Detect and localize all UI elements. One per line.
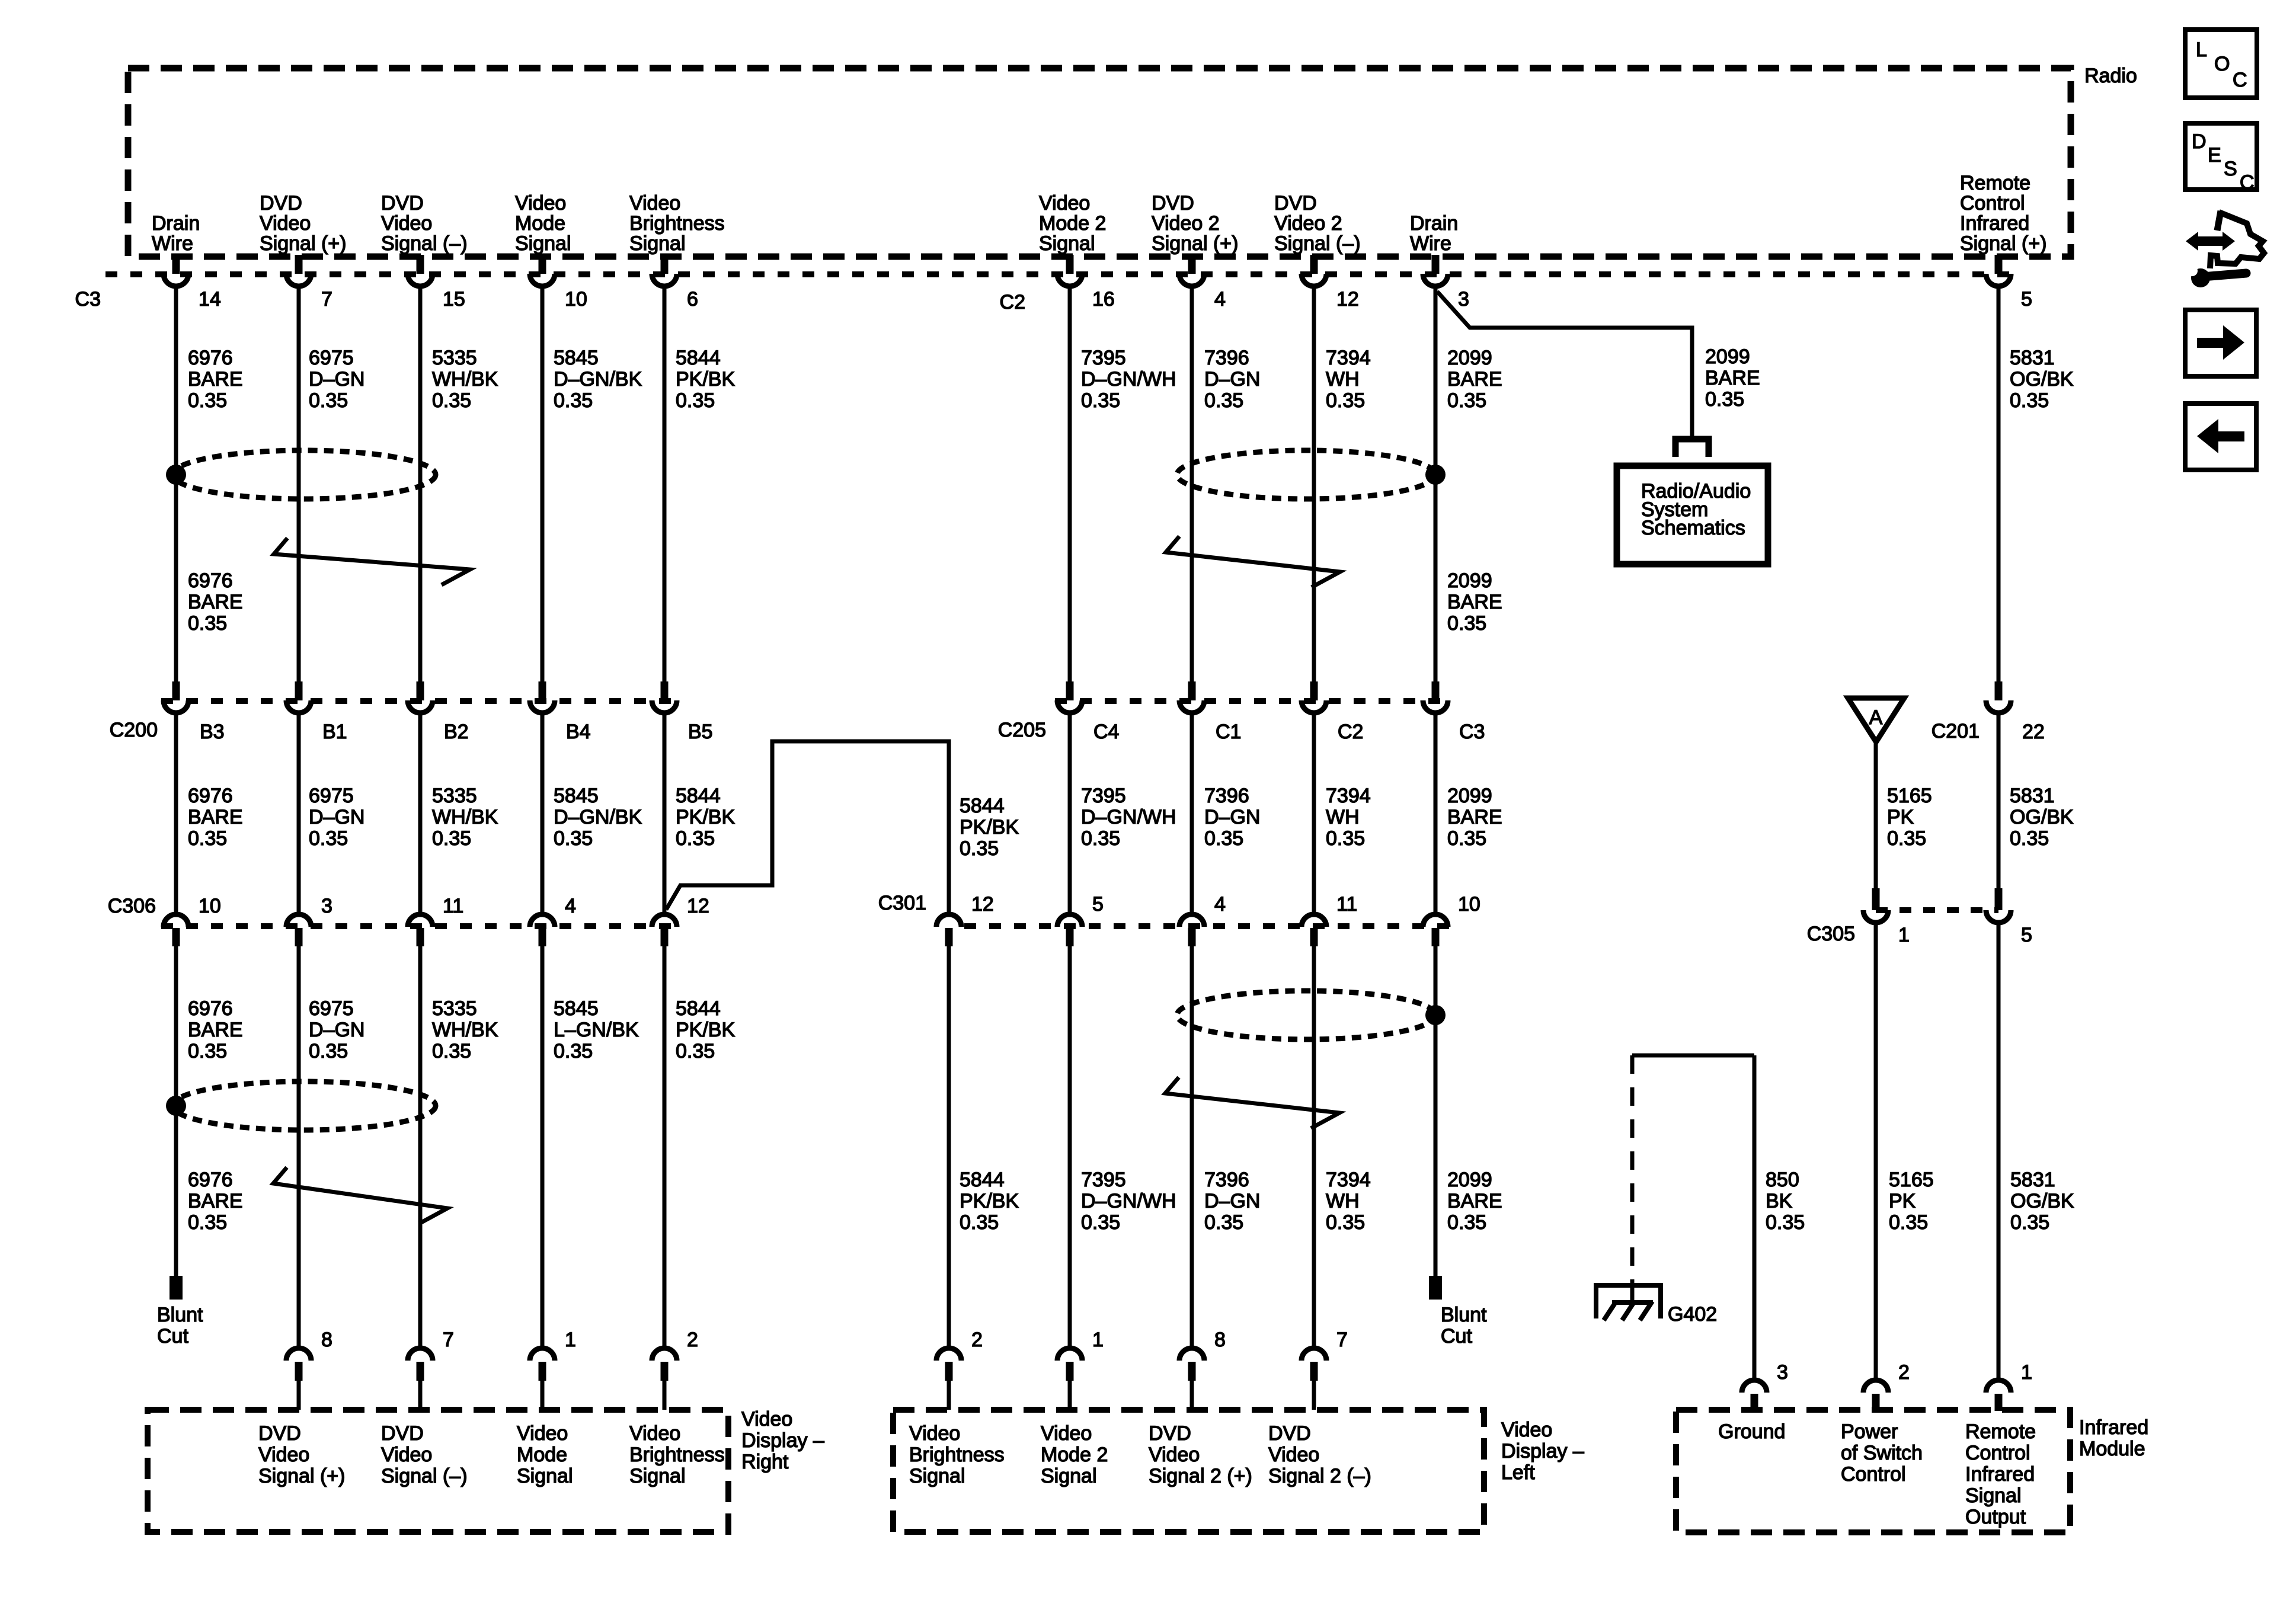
connector terminal 11 at C306 row [408, 895, 463, 946]
connector terminal 1 at C305 row [1863, 888, 1910, 946]
svg-text:Signal 2 (+): Signal 2 (+) [1149, 1465, 1252, 1487]
icon button LOC [2185, 30, 2257, 98]
connector C301 label [878, 892, 926, 914]
svg-text:6975: 6975 [309, 347, 354, 369]
svg-text:Left: Left [1501, 1461, 1535, 1484]
svg-text:BARE: BARE [188, 1019, 243, 1041]
label wire 5831 OG/BK 0.35 (band 5) [2010, 1169, 2074, 1234]
svg-text:0.35: 0.35 [1081, 389, 1120, 412]
svg-text:0.35: 0.35 [1887, 827, 1926, 850]
svg-text:WH/BK: WH/BK [432, 806, 498, 828]
svg-text:15: 15 [443, 288, 465, 311]
svg-text:0.35: 0.35 [432, 1040, 471, 1062]
svg-text:D–GN/BK: D–GN/BK [554, 806, 642, 828]
svg-text:Video: Video [1041, 1422, 1092, 1445]
svg-text:10: 10 [1458, 893, 1480, 916]
label wire 2099 BARE 0.35 (band 3) [1447, 785, 1502, 850]
svg-text:2: 2 [1898, 1361, 1910, 1384]
svg-text:10: 10 [199, 895, 221, 917]
svg-text:0.35: 0.35 [1204, 827, 1243, 850]
svg-text:5845: 5845 [554, 997, 599, 1020]
svg-text:Cut: Cut [157, 1325, 188, 1348]
shield junction dot on drain wire 6976 [166, 465, 186, 485]
svg-text:7: 7 [321, 288, 332, 311]
svg-text:Video 2: Video 2 [1152, 212, 1220, 235]
svg-text:Video 2: Video 2 [1274, 212, 1342, 235]
svg-text:Signal: Signal [1965, 1484, 2022, 1507]
svg-text:Signal 2 (–): Signal 2 (–) [1268, 1465, 1371, 1487]
svg-text:WH: WH [1326, 1190, 1360, 1212]
svg-text:D–GN: D–GN [1204, 1190, 1260, 1212]
svg-text:0.35: 0.35 [1766, 1211, 1805, 1234]
svg-text:Infrared: Infrared [1965, 1463, 2035, 1486]
wire 2099 BARE (C205 C3 to C301 10) [1434, 715, 1438, 912]
shield ellipse (drain 2099 lower cable) [1177, 991, 1435, 1039]
svg-text:10: 10 [565, 288, 587, 311]
svg-text:Signal (–): Signal (–) [381, 232, 468, 255]
label wire 6975 D-GN 0.35 (band 1) [309, 347, 364, 412]
svg-text:B3: B3 [200, 721, 225, 743]
in-line connector C305 dashed line [1876, 907, 1998, 913]
svg-text:0.35: 0.35 [960, 1211, 999, 1234]
connector terminal pin 3 at radio [1423, 255, 1469, 311]
svg-text:Signal: Signal [629, 1465, 686, 1487]
Infrared Module pin label Power of Switch Control [1841, 1420, 1923, 1486]
svg-text:5845: 5845 [554, 785, 599, 807]
svg-text:OG/BK: OG/BK [2010, 806, 2074, 828]
svg-text:Display –: Display – [741, 1429, 824, 1452]
Video Display Right pin label Video Brightness Signal [629, 1422, 725, 1487]
shield ellipse (drain 2099 around right cable) [1177, 450, 1435, 499]
svg-text:0.35: 0.35 [1447, 1211, 1486, 1234]
svg-text:12: 12 [1336, 288, 1359, 311]
connector terminal 4 at C301 row [1179, 893, 1226, 946]
svg-text:C1: C1 [1216, 721, 1241, 743]
svg-text:0.35: 0.35 [1889, 1211, 1928, 1234]
svg-text:5831: 5831 [2010, 1169, 2055, 1191]
svg-text:5335: 5335 [432, 785, 477, 807]
connector terminal pin 10 at radio [530, 255, 587, 311]
svg-text:DVD: DVD [1268, 1422, 1311, 1445]
label wire 5844 PK/BK 0.35 (band 5) [960, 1169, 1019, 1234]
svg-text:1: 1 [1092, 1329, 1104, 1351]
svg-text:D–GN/WH: D–GN/WH [1081, 1190, 1176, 1212]
label wire 6976 BARE 0.35 (band 5) [188, 1169, 243, 1234]
svg-text:7: 7 [443, 1329, 454, 1351]
off-page connector fork symbol [1675, 439, 1709, 457]
svg-text:0.35: 0.35 [309, 827, 348, 850]
svg-text:D–GN: D–GN [309, 1019, 364, 1041]
svg-text:0.35: 0.35 [1447, 389, 1486, 412]
label wire 5844 PK/BK 0.35 (band 4) [676, 997, 735, 1062]
svg-text:0.35: 0.35 [188, 1040, 227, 1062]
svg-text:0.35: 0.35 [1326, 1211, 1365, 1234]
Video Display Left pin label DVD Video Signal 2 (-) [1268, 1422, 1371, 1487]
svg-text:BARE: BARE [188, 368, 243, 391]
svg-text:7394: 7394 [1326, 1169, 1371, 1191]
wire 6976 BARE (C200 B3 to C306 10) [174, 715, 178, 912]
svg-text:L: L [2196, 39, 2207, 61]
connector terminal C4 at C200/C205/C201 row [1057, 681, 1119, 743]
label wire 850 BK 0.35 (band 5) [1766, 1169, 1805, 1234]
wire 5165 PK (triangle A to C305 1) [1874, 742, 1878, 888]
svg-text:Video: Video [381, 1444, 432, 1466]
svg-text:0.35: 0.35 [309, 389, 348, 412]
icon button back arrow [2185, 404, 2256, 470]
ground symbol G402 [1596, 1285, 1717, 1326]
label wire 5831 OG/BK 0.35 (band 3) [2010, 785, 2074, 850]
svg-text:Infrared: Infrared [1960, 212, 2029, 235]
connector terminal B1 at C200/C205/C201 row [286, 681, 347, 743]
wire 7395 D-GN/WH (radio 16 to C205 C4) [1068, 287, 1072, 681]
svg-text:Signal: Signal [909, 1465, 965, 1487]
icon vehicle repair (arrow, outline, wrench) [2186, 211, 2264, 287]
svg-text:C201: C201 [1932, 720, 1980, 743]
component box Radio/Audio System Schematics [1617, 466, 1768, 564]
label wire 7395 D-GN/WH 0.35 (band 3) [1081, 785, 1176, 850]
svg-text:Signal (+): Signal (+) [1960, 232, 2046, 255]
label wire 6975 D-GN 0.35 (band 3) [309, 785, 364, 850]
svg-text:Signal: Signal [517, 1465, 573, 1487]
svg-text:0.35: 0.35 [432, 827, 471, 850]
label wire 5844 PK/BK 0.35 (jog to C301) [960, 795, 1019, 860]
svg-text:6976: 6976 [188, 997, 233, 1020]
svg-text:Control: Control [1965, 1442, 2030, 1464]
label wire 7395 D-GN/WH 0.35 (band 5) [1081, 1169, 1176, 1234]
wire 6975 D-GN (C200 B1 to C306 3) [297, 715, 301, 912]
connector terminal 22 at C200/C205/C201 row [1986, 681, 2045, 743]
connector terminal 11 at C301 row [1302, 893, 1357, 946]
connector terminal B4 at C200/C205/C201 row [530, 681, 591, 743]
svg-text:0.35: 0.35 [1326, 827, 1365, 850]
svg-text:Cut: Cut [1441, 1325, 1472, 1348]
connector terminal pin 2 at Video Display Right [652, 1329, 698, 1410]
svg-text:Video: Video [1268, 1444, 1319, 1466]
svg-text:S: S [2224, 158, 2237, 180]
svg-text:OG/BK: OG/BK [2010, 1190, 2074, 1212]
svg-text:Output: Output [1965, 1506, 2026, 1528]
svg-text:4: 4 [565, 895, 576, 917]
Radio pin label Video Mode Signal (pin 10) [515, 192, 571, 255]
connector C201 label [1932, 720, 1980, 743]
wire 6975 D-GN (radio 7 to C200 B1) [297, 287, 301, 681]
connector terminal 3 at C306 row [286, 895, 332, 946]
svg-text:11: 11 [1336, 893, 1357, 916]
svg-text:Signal: Signal [1039, 232, 1095, 255]
svg-text:D–GN: D–GN [309, 368, 364, 391]
connector terminal B5 at C200/C205/C201 row [652, 681, 713, 743]
connector terminal pin 8 at Video Display Right [286, 1329, 332, 1410]
svg-text:B2: B2 [444, 721, 469, 743]
svg-text:0.35: 0.35 [1081, 827, 1120, 850]
svg-text:0.35: 0.35 [676, 1040, 715, 1062]
label wire 7394 WH 0.35 (band 5) [1326, 1169, 1371, 1234]
svg-text:2: 2 [971, 1329, 983, 1351]
connector C305 label [1807, 923, 1855, 945]
Radio pin label Video Brightness Signal (pin 6) [629, 192, 725, 255]
svg-text:5831: 5831 [2010, 785, 2055, 807]
svg-text:2099: 2099 [1447, 785, 1492, 807]
svg-text:Signal (+): Signal (+) [260, 232, 346, 255]
connector C2 label [1000, 291, 1025, 313]
label wire 5844 PK/BK 0.35 (band 3) [676, 785, 735, 850]
svg-text:BARE: BARE [1705, 367, 1760, 389]
wire 2099 BARE branch to Radio/Audio System Schematics [1437, 292, 1692, 437]
svg-text:Control: Control [1841, 1463, 1906, 1486]
svg-text:1: 1 [2021, 1361, 2032, 1384]
connector C306 label [108, 895, 156, 917]
svg-text:2099: 2099 [1705, 345, 1750, 368]
svg-text:6976: 6976 [188, 785, 233, 807]
wire 850 BK (ground branch to IR module pin 3) [1753, 1055, 1757, 1378]
svg-text:7396: 7396 [1204, 1169, 1249, 1191]
blunt cut terminal on wire 2099 [1429, 1276, 1487, 1348]
svg-text:PK/BK: PK/BK [676, 368, 735, 391]
wire 5335 WH/BK (C306 11 to display pin 7) [418, 946, 423, 1346]
connector terminal pin 8 at Video Display Left [1179, 1329, 1226, 1410]
svg-text:Control: Control [1960, 192, 2025, 215]
component box Radio (dashed outline) [128, 65, 2137, 257]
label wire 5335 WH/BK 0.35 (band 1) [432, 347, 498, 412]
in-line connector C301 dashed line [964, 923, 1450, 929]
svg-text:Video: Video [741, 1408, 792, 1430]
svg-text:6976: 6976 [188, 569, 233, 592]
svg-text:0.35: 0.35 [2010, 827, 2049, 850]
svg-text:12: 12 [687, 895, 709, 917]
svg-text:Right: Right [741, 1451, 789, 1473]
svg-text:C305: C305 [1807, 923, 1855, 945]
svg-text:Drain: Drain [152, 212, 200, 235]
label wire 6976 BARE 0.35 (band 4) [188, 997, 243, 1062]
in-line connector C306 dashed line [161, 923, 679, 929]
svg-text:3: 3 [321, 895, 332, 917]
shield ellipse (drain 6976 around left cable) [172, 450, 436, 499]
connector terminal pin 12 at radio [1302, 255, 1359, 311]
connector terminal pin 2 at Infrared Module [1863, 1361, 1910, 1411]
svg-text:of Switch: of Switch [1841, 1442, 1923, 1464]
svg-text:Signal: Signal [629, 232, 686, 255]
connector terminal pin 1 at Video Display Right [530, 1329, 576, 1410]
connector terminal 4 at C306 row [530, 895, 576, 946]
svg-text:Signal (–): Signal (–) [1274, 232, 1361, 255]
Radio pin label Drain Wire (pin 3) [1410, 212, 1458, 255]
Infrared Module pin label Ground [1718, 1420, 1785, 1443]
svg-text:C205: C205 [998, 719, 1046, 741]
svg-text:0.35: 0.35 [960, 837, 999, 860]
svg-text:Video: Video [381, 212, 432, 235]
svg-text:PK: PK [1889, 1190, 1916, 1212]
svg-text:D–GN: D–GN [309, 806, 364, 828]
svg-text:C306: C306 [108, 895, 156, 917]
svg-text:Video: Video [258, 1444, 309, 1466]
svg-text:C2: C2 [1338, 721, 1363, 743]
svg-text:1: 1 [1898, 924, 1910, 946]
svg-text:DVD: DVD [1274, 192, 1317, 215]
svg-text:6976: 6976 [188, 347, 233, 369]
twisted-pair symbol (6975/5335) [274, 538, 470, 585]
svg-text:L–GN/BK: L–GN/BK [554, 1019, 639, 1041]
svg-text:BARE: BARE [1447, 806, 1502, 828]
icon button forward arrow [2185, 310, 2256, 376]
svg-text:DVD: DVD [1152, 192, 1194, 215]
svg-text:0.35: 0.35 [188, 827, 227, 850]
svg-text:Video: Video [629, 1422, 680, 1445]
svg-text:2: 2 [687, 1329, 698, 1351]
twisted-pair symbol (7396/7394) [1166, 536, 1340, 587]
connector terminal pin 6 at radio [652, 255, 698, 311]
label wire 7396 D-GN 0.35 (band 3) [1204, 785, 1260, 850]
svg-text:DVD: DVD [258, 1422, 301, 1445]
svg-text:Brightness: Brightness [629, 1444, 725, 1466]
svg-text:0.35: 0.35 [188, 1211, 227, 1234]
svg-text:3: 3 [1458, 288, 1469, 311]
svg-text:7396: 7396 [1204, 785, 1249, 807]
wire 2099 BARE (C301 10 to blunt cut) [1434, 946, 1438, 1276]
svg-text:0.35: 0.35 [2010, 1211, 2049, 1234]
svg-text:5: 5 [2021, 288, 2032, 311]
connector terminal pin 16 at radio [1057, 255, 1115, 311]
Infrared Module pin label Remote Control Infrared Signal Output [1965, 1420, 2036, 1528]
svg-text:4: 4 [1214, 288, 1226, 311]
svg-text:11: 11 [443, 895, 463, 917]
svg-text:B5: B5 [688, 721, 713, 743]
wire 850 BK horizontal to ground lead [1632, 1054, 1754, 1058]
svg-text:5831: 5831 [2010, 347, 2055, 369]
svg-text:Schematics: Schematics [1641, 517, 1745, 539]
wire 7396 D-GN (radio 4 to C205 C1) [1190, 287, 1194, 681]
svg-text:Signal: Signal [1041, 1465, 1097, 1487]
svg-text:BARE: BARE [188, 806, 243, 828]
svg-text:5844: 5844 [676, 997, 721, 1020]
Video Display Left pin label Video Mode 2 Signal [1041, 1422, 1108, 1487]
svg-text:PK/BK: PK/BK [960, 1190, 1019, 1212]
svg-text:5845: 5845 [554, 347, 599, 369]
shield junction dot on drain wire 6976 lower [166, 1096, 186, 1116]
svg-text:Display –: Display – [1501, 1440, 1584, 1462]
svg-text:0.35: 0.35 [188, 389, 227, 412]
svg-text:D–GN: D–GN [1204, 806, 1260, 828]
svg-text:0.35: 0.35 [432, 389, 471, 412]
wire 7394 WH (C205 C2 to C301 11) [1312, 715, 1316, 912]
Video Display Right pin label Video Mode Signal [517, 1422, 573, 1487]
label wire 7394 WH 0.35 (band 3) [1326, 785, 1371, 850]
svg-text:5844: 5844 [676, 347, 721, 369]
svg-text:Brightness: Brightness [909, 1444, 1005, 1466]
svg-text:Drain: Drain [1410, 212, 1458, 235]
svg-text:E: E [2208, 144, 2221, 167]
svg-text:0.35: 0.35 [676, 827, 715, 850]
svg-text:850: 850 [1766, 1169, 1799, 1191]
Radio pin label DVD Video Signal (-) (pin 15) [381, 192, 468, 255]
svg-text:0.35: 0.35 [1326, 389, 1365, 412]
connector terminal pin 7 at Video Display Left [1302, 1329, 1348, 1410]
svg-text:D–GN/BK: D–GN/BK [554, 368, 642, 391]
wire 5845 D-GN/BK (C200 B4 to C306 4) [541, 715, 545, 912]
in-line connector row C3/C2 dashed line [105, 271, 2014, 277]
connector C3 label [75, 288, 101, 311]
svg-text:14: 14 [199, 288, 221, 311]
svg-text:Wire: Wire [1410, 232, 1451, 255]
svg-text:Mode: Mode [517, 1444, 567, 1466]
ground lead dashed wire to G402 [1630, 1055, 1635, 1285]
wire 5844 PK/BK (C306 12 to display pin 2) [663, 946, 667, 1346]
label wire 5845 L-GN/BK 0.35 (band 4) [554, 997, 639, 1062]
connector terminal pin 15 at radio [408, 255, 465, 311]
svg-text:G402: G402 [1668, 1303, 1717, 1326]
svg-text:Signal (+): Signal (+) [258, 1465, 345, 1487]
svg-text:PK/BK: PK/BK [676, 806, 735, 828]
wire 5335 WH/BK (radio 15 to C200 B2) [418, 287, 423, 681]
connector C205 label [998, 719, 1046, 741]
svg-text:0.35: 0.35 [554, 827, 593, 850]
svg-text:BK: BK [1766, 1190, 1793, 1212]
wire 5844 PK/BK (C301 12 to left display pin 2) [947, 946, 951, 1346]
wire 6976 BARE (C306 10 to blunt cut) [174, 946, 178, 1276]
svg-text:D: D [2192, 130, 2207, 153]
shield junction dot on drain wire 2099 [1425, 465, 1446, 485]
shield ellipse (drain 6976 lower cable) [172, 1081, 436, 1130]
svg-text:3: 3 [1777, 1361, 1788, 1384]
svg-text:DVD: DVD [260, 192, 302, 215]
connector terminal pin 7 at radio [286, 255, 332, 311]
svg-text:5335: 5335 [432, 997, 477, 1020]
wire 5831 OG/BK (C305 5 to IR module pin 1) [1997, 925, 2001, 1378]
svg-text:Mode 2: Mode 2 [1041, 1444, 1108, 1466]
svg-text:1: 1 [565, 1329, 576, 1351]
svg-text:C200: C200 [110, 719, 158, 741]
connector terminal 12 at C301 row [936, 893, 994, 946]
wire 7396 D-GN (C301 4 to left display pin 8) [1190, 946, 1194, 1346]
svg-text:Infrared: Infrared [2079, 1416, 2148, 1439]
svg-text:Radio: Radio [2084, 65, 2137, 87]
wire 5831 OG/BK (C201 22 to C305 5) [1997, 715, 2001, 888]
svg-text:22: 22 [2022, 721, 2045, 743]
wire 7395 D-GN/WH (C205 C4 to C301 5) [1068, 715, 1072, 912]
svg-text:BARE: BARE [1447, 368, 1502, 391]
svg-text:5: 5 [2021, 924, 2032, 946]
svg-text:7394: 7394 [1326, 785, 1371, 807]
connector terminal pin 1 at Video Display Left [1057, 1329, 1104, 1410]
svg-text:Video: Video [515, 192, 566, 215]
svg-text:0.35: 0.35 [309, 1040, 348, 1062]
connector terminal pin 14 at radio [164, 255, 221, 311]
Radio pin label DVD Video Signal (+) (pin 7) [260, 192, 346, 255]
svg-text:WH/BK: WH/BK [432, 368, 498, 391]
svg-text:BARE: BARE [1447, 1190, 1502, 1212]
svg-text:0.35: 0.35 [1204, 389, 1243, 412]
svg-text:PK/BK: PK/BK [960, 816, 1019, 838]
svg-text:B4: B4 [566, 721, 591, 743]
svg-text:0.35: 0.35 [1081, 1211, 1120, 1234]
label wire 7396 D-GN 0.35 (band 1) [1204, 347, 1260, 412]
svg-text:Video: Video [517, 1422, 568, 1445]
wire 7396 D-GN (C205 C1 to C301 4) [1190, 715, 1194, 912]
component box Infrared Module (dashed outline) [1676, 1410, 2148, 1532]
svg-text:Ground: Ground [1718, 1420, 1785, 1443]
twisted-pair symbol (6975/5335 lower) [273, 1167, 447, 1224]
svg-text:WH: WH [1326, 806, 1360, 828]
svg-text:BARE: BARE [188, 591, 243, 613]
blunt cut terminal on wire 6976 [157, 1276, 203, 1348]
label wire 2099 BARE 0.35 (band 2) [1447, 569, 1502, 635]
wire 5844 PK/BK jog (C306 12 to C301 12) [666, 741, 949, 912]
svg-text:Video: Video [1039, 192, 1090, 215]
svg-text:7394: 7394 [1326, 347, 1371, 369]
wire 7394 WH (C301 11 to left display pin 7) [1312, 946, 1316, 1346]
label wire 7396 D-GN 0.35 (band 5) [1204, 1169, 1260, 1234]
connector terminal pin 5 at radio [1986, 255, 2032, 311]
wire 5831 OG/BK (radio 5 to C201 22) [1997, 287, 2001, 681]
